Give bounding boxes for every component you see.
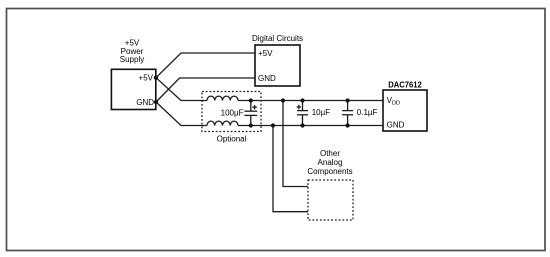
capacitor C1 100uF (221, 101, 258, 126)
svg-text:+5V: +5V (258, 49, 273, 58)
wire GND rail to other analog components (273, 126, 308, 212)
power supply label "+5V Power Supply" (120, 39, 144, 64)
node junction C3 top (346, 98, 350, 102)
svg-text:0.1µF: 0.1µF (357, 108, 378, 117)
svg-text:GND: GND (136, 98, 154, 107)
other analog components dashed box (308, 180, 353, 220)
svg-text:GND: GND (387, 121, 405, 130)
svg-text:Other: Other (320, 149, 340, 158)
svg-text:DAC7612: DAC7612 (388, 80, 422, 89)
label Other Analog Components (307, 149, 352, 176)
svg-text:Components: Components (307, 167, 352, 176)
digital circuits box (255, 45, 300, 86)
capacitor C3 0.1uF (342, 101, 377, 126)
wire GND supply to GND rail (156, 102, 207, 126)
node junction C3 bottom (346, 123, 350, 127)
wire GND supply to digital circuits GND (156, 78, 255, 102)
svg-text:100µF: 100µF (221, 108, 244, 117)
svg-text:Supply: Supply (120, 55, 144, 64)
node +5V supply terminal (154, 76, 158, 80)
node junction C1 bottom (249, 123, 253, 127)
node junction C2 top (300, 98, 304, 102)
power supply box (111, 69, 155, 109)
wire +5V rail (inductor to DAC) (238, 100, 383, 102)
node junction C1 top (249, 98, 253, 102)
svg-text:Digital Circuits: Digital Circuits (252, 34, 303, 43)
wire GND rail (inductor to DAC) (238, 125, 383, 127)
inductor L1 (+5V rail) (207, 96, 238, 100)
DAC7612 box (383, 90, 427, 131)
inductor L2 (GND rail) (207, 121, 238, 125)
optional filter dashed box (202, 92, 261, 132)
svg-text:Analog: Analog (318, 158, 343, 167)
node junction +5V drop (281, 98, 285, 102)
node GND supply terminal (154, 100, 158, 104)
svg-text:GND: GND (258, 74, 276, 83)
wire +5V supply to +5V rail (156, 78, 207, 101)
node junction GND drop (271, 123, 275, 127)
wire +5V supply to digital circuits +5V (156, 53, 255, 78)
node junction C2 bottom (300, 123, 304, 127)
wire +5V rail to other analog components (283, 101, 308, 187)
capacitor C2 10uF (297, 101, 331, 126)
svg-text:Optional: Optional (217, 135, 247, 144)
svg-text:+5V: +5V (139, 74, 154, 83)
svg-text:10µF: 10µF (312, 108, 331, 117)
